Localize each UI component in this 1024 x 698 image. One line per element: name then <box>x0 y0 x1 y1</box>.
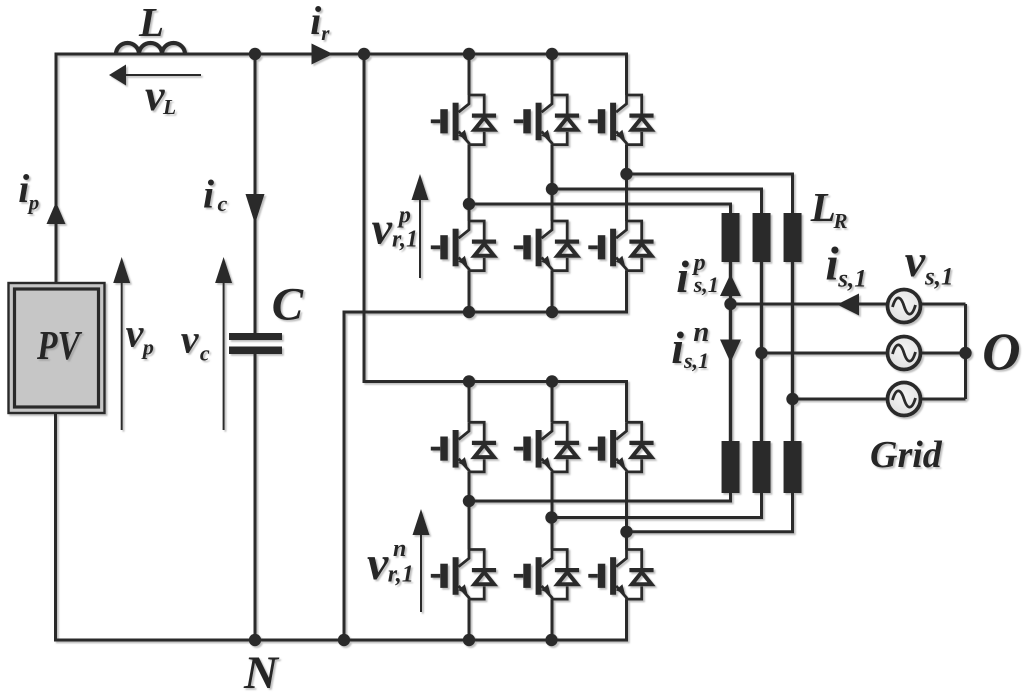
svg-text:r,1: r,1 <box>388 562 414 588</box>
svg-text:s,1: s,1 <box>693 272 719 297</box>
svg-text:i: i <box>825 238 839 291</box>
svg-text:v: v <box>145 71 165 120</box>
svg-text:p: p <box>141 335 154 360</box>
svg-text:C: C <box>272 279 304 331</box>
svg-text:r: r <box>321 21 330 45</box>
svg-text:p: p <box>27 191 40 215</box>
svg-text:Grid: Grid <box>870 434 943 476</box>
svg-text:O: O <box>982 324 1020 382</box>
svg-text:p: p <box>397 203 411 229</box>
svg-text:c: c <box>200 341 210 366</box>
svg-text:i: i <box>676 251 689 302</box>
svg-text:L: L <box>810 184 836 230</box>
svg-text:L: L <box>162 95 176 119</box>
svg-text:r,1: r,1 <box>392 227 418 253</box>
svg-text:s,1: s,1 <box>924 263 953 290</box>
svg-text:N: N <box>243 647 280 698</box>
svg-text:i: i <box>310 0 321 43</box>
svg-text:v: v <box>126 311 145 356</box>
svg-text:c: c <box>218 191 228 216</box>
svg-text:R: R <box>833 209 848 233</box>
svg-text:n: n <box>393 536 406 562</box>
svg-text:v: v <box>181 317 200 362</box>
svg-text:v: v <box>372 203 393 254</box>
svg-text:v: v <box>367 537 389 590</box>
svg-text:i: i <box>203 172 214 217</box>
svg-text:L: L <box>138 0 164 45</box>
svg-text:s,1: s,1 <box>837 266 866 293</box>
svg-text:v: v <box>905 235 926 286</box>
svg-text:PV: PV <box>36 322 83 368</box>
svg-text:s,1: s,1 <box>683 348 709 373</box>
svg-text:i: i <box>671 322 684 373</box>
svg-text:n: n <box>693 316 709 348</box>
svg-text:i: i <box>18 166 29 211</box>
